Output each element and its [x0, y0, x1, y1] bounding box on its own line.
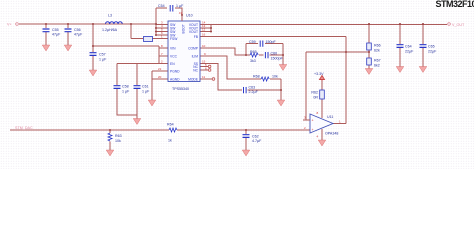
svg-text:C62: C62	[252, 134, 259, 138]
svg-text:4: 4	[317, 135, 319, 139]
svg-text:R62: R62	[311, 91, 318, 95]
svg-text:C64: C64	[405, 45, 412, 49]
svg-text:TPS55340: TPS55340	[172, 87, 189, 91]
svg-text:0R: 0R	[313, 95, 318, 99]
svg-text:R65: R65	[250, 50, 257, 54]
svg-text:C57: C57	[99, 53, 106, 57]
svg-text:20: 20	[158, 75, 162, 79]
svg-text:2.2µF: 2.2µF	[249, 90, 259, 94]
svg-text:1500pF: 1500pF	[271, 56, 284, 60]
svg-text:C58: C58	[122, 85, 129, 89]
svg-text:C59: C59	[249, 40, 256, 44]
svg-text:NC: NC	[193, 69, 198, 73]
svg-text:BOOT: BOOT	[182, 24, 186, 33]
svg-text:62k: 62k	[374, 48, 380, 52]
svg-text:10: 10	[202, 44, 206, 48]
svg-text:22µF: 22µF	[428, 49, 437, 53]
svg-text:1k: 1k	[168, 138, 172, 142]
svg-text:47µF: 47µF	[74, 33, 83, 37]
svg-text:12: 12	[202, 28, 206, 32]
svg-text:10k: 10k	[115, 139, 121, 143]
svg-text:VIN: VIN	[170, 46, 176, 50]
svg-text:C65: C65	[428, 45, 435, 49]
svg-text:4.7µF: 4.7µF	[252, 139, 262, 143]
svg-text:PGND: PGND	[170, 69, 180, 73]
svg-text:+3.3V: +3.3V	[314, 72, 324, 76]
svg-text:COMP: COMP	[188, 46, 199, 50]
svg-text:7: 7	[161, 52, 163, 56]
svg-text:1 µF: 1 µF	[176, 4, 184, 8]
svg-text:ILIM: ILIM	[192, 54, 199, 58]
svg-text:1 µF: 1 µF	[99, 57, 107, 61]
svg-text:STM32F103: STM32F103	[436, 0, 474, 9]
svg-text:1.2µH/6A: 1.2µH/6A	[102, 28, 118, 32]
svg-text:U11: U11	[327, 115, 333, 119]
svg-text:150pF: 150pF	[266, 40, 277, 44]
svg-text:+: +	[312, 128, 314, 132]
svg-text:C55: C55	[52, 28, 59, 32]
svg-text:VOUT: VOUT	[189, 30, 198, 34]
svg-text:2: 2	[161, 60, 163, 64]
svg-text:C54: C54	[158, 4, 165, 8]
svg-text:R68: R68	[253, 74, 260, 78]
svg-text:8: 8	[317, 111, 319, 115]
svg-text:10k: 10k	[272, 74, 278, 78]
svg-text:C61: C61	[142, 85, 149, 89]
svg-text:22µF: 22µF	[405, 49, 414, 53]
svg-text:L3: L3	[108, 14, 112, 18]
svg-text:MODE: MODE	[188, 77, 199, 81]
svg-text:R67: R67	[374, 59, 381, 63]
svg-text:U10: U10	[186, 14, 193, 18]
svg-text:2: 2	[304, 126, 306, 130]
svg-text:11: 11	[202, 75, 205, 79]
svg-text:VCC: VCC	[170, 54, 178, 58]
svg-text:3k3: 3k3	[250, 59, 256, 63]
svg-text:1 µF: 1 µF	[122, 89, 130, 93]
svg-text:FSW: FSW	[170, 37, 178, 41]
svg-text:19: 19	[179, 11, 183, 15]
svg-text:C56: C56	[74, 28, 81, 32]
svg-text:V+: V+	[7, 23, 12, 27]
svg-text:1 µF: 1 µF	[142, 89, 150, 93]
svg-text:47µF: 47µF	[52, 33, 61, 37]
svg-text:16: 16	[202, 33, 206, 37]
svg-text:OPA348: OPA348	[325, 131, 338, 135]
svg-text:21: 21	[158, 67, 162, 71]
svg-text:9: 9	[204, 52, 206, 56]
svg-text:R64: R64	[167, 122, 174, 126]
svg-text:EN: EN	[170, 62, 175, 66]
svg-text:6k2: 6k2	[374, 63, 380, 67]
svg-text:8: 8	[161, 44, 163, 48]
svg-text:R63: R63	[115, 134, 122, 138]
svg-text:AGND: AGND	[170, 77, 180, 81]
svg-text:V_OUT: V_OUT	[452, 23, 465, 27]
svg-text:1: 1	[339, 120, 341, 124]
svg-text:C60: C60	[271, 52, 278, 56]
svg-text:R66: R66	[374, 44, 381, 48]
svg-text:+: +	[312, 118, 314, 122]
svg-text:STM_DAC: STM_DAC	[15, 126, 33, 130]
svg-text:C63: C63	[249, 85, 256, 89]
